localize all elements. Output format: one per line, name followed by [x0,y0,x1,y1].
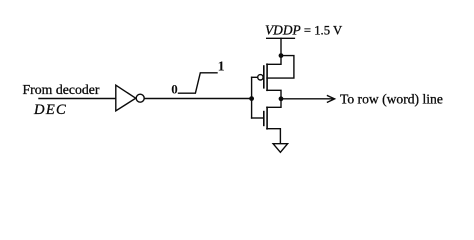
step waveform 0-to-1 [179,73,218,93]
wire PMOS gate branch [252,76,258,78]
inverter U1 output bubble [136,94,144,102]
transistor M1 PMOS bulk tie to VDDP [267,56,294,79]
svg-text:To row (word) line: To row (word) line [340,92,443,108]
transistor M1 PMOS gate bubble [258,75,263,80]
wire VDDP to source node [280,38,282,55]
transistor M2 NMOS source lead [267,129,281,144]
svg-text:From decoder: From decoder [23,82,100,97]
transistor M1 PMOS drain lead [267,90,281,99]
transistor M2 NMOS drain lead [267,99,281,108]
wire inverter output to gate node [144,98,251,100]
svg-text:VDDP = 1.5 V: VDDP = 1.5 V [265,23,343,38]
transistor M1 PMOS gate bar [263,66,265,88]
svg-text:DEC: DEC [33,102,67,118]
wire input from decoder [39,98,116,100]
ground symbol [273,144,288,153]
arrowhead to row line [328,96,335,103]
transistor M1 PMOS source lead [267,56,281,65]
svg-text:1: 1 [218,60,225,75]
inverter U1 triangle [116,85,136,111]
wire NMOS gate branch [252,117,264,119]
node output junction dot [279,96,284,101]
wire gate vertical [251,77,253,118]
node gate junction dot [249,96,254,101]
transistor M1 PMOS channel bar [266,64,268,90]
transistor M2 NMOS channel bar [266,107,268,129]
svg-text:0: 0 [171,81,178,96]
node VDDP junction dot [279,53,284,58]
transistor M2 NMOS gate bar [263,112,265,126]
VDDP supply bar [267,37,295,39]
wire output to arrow [281,98,334,100]
